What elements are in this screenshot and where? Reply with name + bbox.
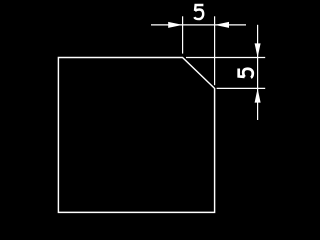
right dimension upper extension line [186, 57, 265, 59]
top dimension left arrowhead [168, 22, 182, 28]
right dimension text 5 (rotated) [239, 69, 253, 78]
top dimension right extension line [214, 16, 216, 85]
right dimension up arrowhead [255, 88, 261, 102]
chamfered square outline [58, 58, 214, 213]
top dimension left extension line [182, 16, 184, 53]
top dimension line [151, 24, 246, 26]
right dimension line [257, 25, 259, 120]
top dimension text 5 [194, 5, 203, 19]
right dimension down arrowhead [255, 43, 261, 57]
top dimension right arrowhead [215, 22, 229, 28]
right dimension lower extension line [217, 87, 266, 89]
